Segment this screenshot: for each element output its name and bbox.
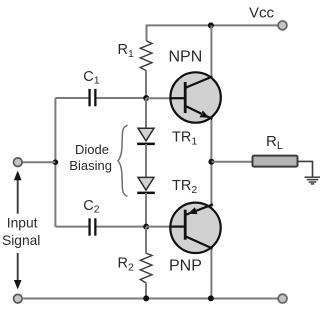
wire base lead NPN bbox=[146, 97, 172, 99]
node NPN base junction bbox=[143, 95, 149, 101]
capacitor C2 bbox=[88, 218, 96, 235]
arrow input down bbox=[14, 253, 22, 290]
wire collector PNP to bottom rail bbox=[210, 248, 212, 299]
wire diode chain top bbox=[145, 98, 147, 130]
label Diode Biasing bbox=[69, 142, 112, 173]
wire C2 to base node bbox=[97, 226, 147, 228]
diode D2 bbox=[137, 177, 155, 194]
wire C1 to base node bbox=[97, 97, 147, 99]
wire bottom rail bbox=[22, 298, 279, 300]
label Input Signal bbox=[2, 215, 40, 247]
svg-text:Signal: Signal bbox=[2, 233, 40, 248]
node output junction bbox=[208, 159, 214, 165]
wire C1 left lead bbox=[55, 97, 88, 99]
output terminal bottom bbox=[278, 294, 287, 303]
svg-text:PNP: PNP bbox=[169, 257, 202, 274]
wire between diodes bbox=[145, 144, 147, 179]
transistor Q1 NPN TR1 bbox=[170, 72, 221, 122]
wire diode chain bottom bbox=[145, 193, 147, 227]
wire input terminal lead bbox=[22, 161, 56, 163]
resistor R1 bbox=[140, 41, 152, 71]
node PNP collector junction bbox=[208, 295, 214, 301]
wire output node rail bbox=[210, 118, 212, 208]
node input junction bbox=[53, 159, 59, 165]
wire output to load bbox=[211, 161, 253, 163]
wire R1 bottom lead bbox=[145, 70, 147, 98]
node top junction bbox=[208, 22, 214, 28]
Vcc terminal bbox=[278, 21, 287, 30]
diode D1 bbox=[137, 128, 155, 145]
wire R2 top lead bbox=[145, 227, 147, 254]
wire C2 left lead bbox=[55, 226, 88, 228]
svg-text:Vcc: Vcc bbox=[249, 5, 275, 22]
capacitor C1 bbox=[88, 89, 96, 106]
brace diode biasing bbox=[118, 125, 128, 196]
resistor R2 bbox=[140, 253, 152, 283]
wire main rail collector NPN bbox=[210, 25, 212, 78]
svg-text:Diode: Diode bbox=[75, 142, 109, 157]
arrow input up bbox=[14, 171, 22, 214]
wire R2 bottom lead bbox=[145, 283, 147, 299]
ground bbox=[305, 177, 320, 184]
input terminal bottom bbox=[13, 294, 22, 303]
node R2 bottom junction bbox=[143, 295, 149, 301]
input terminal top bbox=[13, 158, 22, 167]
svg-text:Biasing: Biasing bbox=[69, 158, 112, 173]
node PNP base junction bbox=[143, 224, 149, 230]
wire top rail Vcc bbox=[147, 25, 278, 41]
wire left input rail bbox=[54, 98, 56, 227]
svg-text:NPN: NPN bbox=[169, 49, 203, 66]
resistor RL load bbox=[253, 156, 298, 167]
wire load to ground bbox=[298, 161, 313, 176]
wire base lead PNP bbox=[146, 226, 172, 228]
svg-text:Input: Input bbox=[7, 215, 38, 230]
transistor Q2 PNP TR2 bbox=[170, 203, 221, 253]
